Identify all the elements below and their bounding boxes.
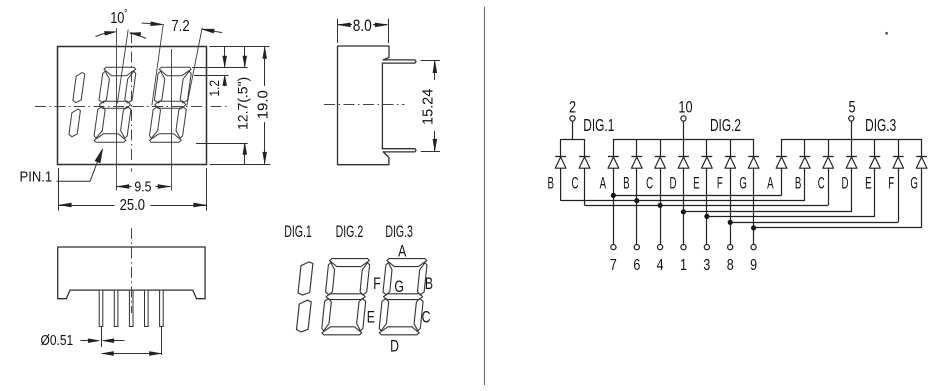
- 19.0 dimension: [264, 46, 266, 86]
- side view centerline: [324, 104, 405, 106]
- svg-text:C: C: [646, 172, 653, 192]
- svg-text:A: A: [600, 172, 607, 192]
- pin 8 terminal: [728, 245, 733, 250]
- svg-text:F: F: [373, 275, 380, 293]
- segment A: [330, 259, 370, 267]
- digit3 center construction line: [171, 49, 173, 191]
- pin spacing dimension: [161, 327, 163, 356]
- wire diode F DIG.2 down to pin: [730, 168, 732, 244]
- svg-text:8.0: 8.0: [353, 17, 372, 35]
- svg-text:PIN.1: PIN.1: [20, 169, 53, 185]
- LED E DIG.3: [870, 156, 881, 158]
- bottom view centerline: [131, 228, 133, 313]
- wire DIG.1 C to rail C: [584, 168, 586, 205]
- wire diode F DIG.3 to rail F: [898, 168, 900, 222]
- pin 4 terminal: [658, 245, 663, 250]
- 8.0 dimension: [337, 19, 339, 43]
- junction dot F: [728, 220, 733, 225]
- wire bus to diode B DIG.1: [560, 139, 562, 156]
- svg-text:2: 2: [569, 98, 576, 117]
- wire diode D DIG.3 to rail D: [851, 168, 853, 212]
- svg-text:B: B: [425, 275, 433, 293]
- svg-text:9.5: 9.5: [134, 179, 151, 195]
- svg-text:G: G: [910, 172, 918, 192]
- 7.2 right extension line (slanted): [187, 28, 202, 106]
- junction dot C: [658, 203, 663, 208]
- diagram DIG.1 segment C: [297, 300, 312, 332]
- wire diode G DIG.3 to rail G: [921, 168, 923, 228]
- svg-text:C: C: [818, 172, 825, 192]
- wire diode A DIG.2 down to pin: [613, 168, 615, 244]
- rail E wire: [707, 216, 875, 218]
- svg-text:15.24: 15.24: [420, 89, 436, 125]
- wire diode B DIG.2 down to pin: [636, 168, 638, 244]
- front view package outline: [58, 47, 207, 165]
- wire diode C DIG.2 down to pin: [660, 168, 662, 244]
- wire pin10 to DIG.2 bus: [683, 121, 685, 139]
- svg-text:8: 8: [727, 257, 734, 275]
- LED A DIG.2: [608, 156, 619, 158]
- 25.0 dimension right extension: [206, 168, 208, 211]
- front DIG.1 segment C: [69, 109, 81, 137]
- bottom view pin 4: [145, 290, 149, 326]
- svg-text:G: G: [394, 278, 404, 296]
- svg-text:F: F: [717, 172, 723, 192]
- wire diode D DIG.2 down to pin: [683, 168, 685, 244]
- svg-text:10: 10: [110, 10, 124, 28]
- svg-text:1: 1: [680, 257, 687, 275]
- segment E: [150, 107, 161, 139]
- svg-text:DIG.2: DIG.2: [710, 116, 741, 136]
- 1.2 dimension: [224, 46, 226, 66]
- digit bottom extension line: [196, 143, 248, 145]
- svg-text:1.2: 1.2: [206, 80, 222, 97]
- digit2 center construction line: [116, 28, 118, 191]
- segment C: [176, 107, 186, 139]
- segment C: [121, 107, 131, 139]
- bottom view pin 2: [114, 290, 118, 326]
- wire bus to diode F DIG.2: [730, 139, 732, 156]
- segment D: [94, 134, 126, 143]
- PIN.1 leader line: [57, 153, 102, 182]
- svg-text:C: C: [422, 309, 431, 327]
- segment B: [180, 71, 191, 103]
- svg-text:5: 5: [848, 98, 855, 117]
- wire bus to diode B DIG.3: [804, 139, 806, 156]
- front view horizontal centerline: [35, 106, 228, 108]
- wire diode B DIG.3 to rail B: [804, 168, 806, 201]
- wire diode E DIG.3 to rail E: [874, 168, 876, 216]
- segment A: [387, 259, 427, 267]
- segment C: [414, 299, 423, 331]
- svg-text:D: D: [669, 172, 676, 192]
- LED F DIG.2: [725, 156, 736, 158]
- svg-text:10: 10: [678, 98, 692, 117]
- segment C: [357, 299, 366, 331]
- svg-text:E: E: [865, 172, 871, 192]
- svg-text:25.0: 25.0: [120, 197, 145, 214]
- wire diode G DIG.2 down to pin: [753, 168, 755, 244]
- wire DIG.1 B to rail B: [560, 168, 562, 201]
- wire bus to diode G DIG.2: [753, 139, 755, 156]
- digit top extension line: [192, 67, 248, 69]
- junction dot D: [681, 209, 686, 214]
- svg-text:Ø0.51: Ø0.51: [41, 332, 74, 349]
- DIG.1 anode bus: [561, 139, 585, 141]
- svg-text:7.2: 7.2: [171, 18, 189, 35]
- segment B: [418, 263, 428, 295]
- segment F: [383, 263, 392, 295]
- segment D: [379, 327, 419, 335]
- svg-text:A: A: [398, 243, 406, 261]
- segment E: [94, 107, 105, 139]
- segment F: [154, 71, 164, 103]
- rail C wire: [585, 205, 829, 207]
- LED C DIG.1: [579, 156, 590, 158]
- bottom view pin 1: [99, 290, 103, 326]
- segment B: [360, 263, 370, 295]
- rail D wire: [684, 211, 852, 213]
- segment top extension line (1.2): [194, 75, 229, 77]
- segment G: [155, 101, 186, 108]
- svg-text:DIG.2: DIG.2: [336, 222, 364, 241]
- 15.24 dimension: [421, 60, 440, 62]
- 9.5 dimension: [116, 186, 131, 188]
- segment A: [104, 67, 136, 76]
- package top extension line: [210, 46, 270, 48]
- segment A: [159, 67, 191, 76]
- svg-text:D: D: [390, 338, 399, 356]
- pin 9 terminal: [751, 245, 756, 250]
- wire diode E DIG.2 down to pin: [706, 168, 708, 244]
- bottom view pin 5: [160, 290, 164, 326]
- svg-text:DIG.3: DIG.3: [865, 116, 896, 136]
- svg-text:C: C: [571, 172, 578, 192]
- LED G DIG.2: [748, 156, 759, 158]
- LED C DIG.3: [823, 156, 834, 158]
- segment B: [125, 71, 136, 103]
- package bottom extension line: [210, 164, 271, 166]
- LED A DIG.3: [776, 156, 787, 158]
- wire bus to diode A DIG.3: [781, 139, 783, 156]
- 7.2 left extension line (slanted): [152, 24, 163, 105]
- 12.7(.5in) dimension: [244, 46, 246, 66]
- front view vertical centerline: [131, 32, 133, 172]
- svg-text:D: D: [841, 172, 848, 192]
- junction dot E: [704, 214, 709, 219]
- wire bus to diode C DIG.1: [584, 139, 586, 156]
- segment G: [384, 294, 423, 300]
- 25.0 dimension left extension: [58, 168, 60, 211]
- pin 7 terminal: [611, 245, 616, 250]
- segment G: [99, 101, 130, 108]
- 25.0 dimension line and arrows: [59, 205, 115, 207]
- svg-text:12.7(.5"): 12.7(.5"): [235, 77, 251, 130]
- DIG.3 anode bus: [782, 139, 922, 141]
- svg-text:DIG.1: DIG.1: [583, 116, 614, 136]
- wire bus to diode E DIG.2: [706, 139, 708, 156]
- segment D: [150, 134, 182, 143]
- DIG.2 anode bus: [613, 139, 753, 141]
- pin 6 terminal: [634, 245, 639, 250]
- svg-text:3: 3: [703, 257, 710, 275]
- LED D DIG.2: [678, 156, 689, 158]
- wire bus to diode G DIG.3: [921, 139, 923, 156]
- svg-text:G: G: [739, 172, 747, 192]
- LED B DIG.3: [800, 156, 811, 158]
- rail G wire: [754, 227, 922, 229]
- diameter 0.51 leader arrows: [101, 327, 103, 348]
- svg-text:B: B: [547, 172, 553, 192]
- wire bus to diode E DIG.3: [874, 139, 876, 156]
- bottom view body outline: [58, 247, 205, 299]
- segment F: [326, 263, 335, 295]
- svg-text:A: A: [767, 172, 774, 192]
- svg-text:B: B: [623, 172, 629, 192]
- svg-text:E: E: [693, 172, 699, 192]
- wire bus to diode A DIG.2: [613, 139, 615, 156]
- wire diode C DIG.3 to rail C: [828, 168, 830, 205]
- segment F: [99, 71, 109, 103]
- diagram DIG.1 segment B: [298, 262, 313, 295]
- LED F DIG.3: [893, 156, 904, 158]
- pin 5 terminal: [849, 116, 854, 121]
- svg-text:E: E: [367, 309, 375, 327]
- pin 3 terminal: [704, 245, 709, 250]
- wire bus to diode C DIG.3: [828, 139, 830, 156]
- svg-text:°: °: [124, 8, 128, 20]
- rail A wire: [613, 195, 781, 197]
- pin 2 terminal: [570, 116, 575, 121]
- svg-text:DIG.3: DIG.3: [385, 222, 413, 241]
- pin 1 terminal: [681, 245, 686, 250]
- rail B wire: [561, 200, 805, 202]
- junction dot B: [634, 198, 639, 203]
- bottom view pin 3: [129, 290, 133, 326]
- wire bus to diode B DIG.2: [636, 139, 638, 156]
- svg-text:B: B: [795, 172, 801, 192]
- svg-text:F: F: [888, 172, 894, 192]
- LED D DIG.3: [846, 156, 857, 158]
- segment E: [379, 299, 389, 331]
- wire bus to diode D DIG.3: [851, 139, 853, 156]
- 10deg slanted axis line: [117, 30, 128, 104]
- svg-text:4: 4: [657, 257, 664, 275]
- LED E DIG.2: [702, 156, 713, 158]
- rail F wire: [730, 222, 898, 224]
- LED B DIG.1: [555, 156, 566, 158]
- stray dot: [885, 32, 888, 35]
- segment D: [322, 327, 362, 335]
- segment G: [326, 294, 365, 300]
- LED G DIG.3: [916, 156, 927, 158]
- svg-text:7: 7: [610, 257, 617, 275]
- wire bus to diode D DIG.2: [683, 139, 685, 156]
- segment E: [322, 299, 332, 331]
- svg-text:DIG.1: DIG.1: [284, 222, 312, 241]
- wire bus to diode F DIG.3: [898, 139, 900, 156]
- side view body outline: [338, 46, 416, 165]
- svg-text:6: 6: [633, 257, 640, 275]
- wire bus to diode C DIG.2: [660, 139, 662, 156]
- front DIG.1 segment B: [73, 73, 85, 103]
- junction dot A: [611, 193, 616, 198]
- svg-text:19.0: 19.0: [254, 90, 271, 119]
- wire pin2 to DIG.1 bus: [572, 121, 574, 139]
- LED B DIG.2: [631, 156, 642, 158]
- wire pin5 to DIG.3 bus: [851, 121, 853, 139]
- wire diode A DIG.3 to rail A: [781, 168, 783, 195]
- pin 10 terminal: [681, 116, 686, 121]
- LED C DIG.2: [655, 156, 666, 158]
- junction dot G: [751, 225, 756, 230]
- svg-text:9: 9: [750, 257, 757, 275]
- separator line: [484, 7, 486, 385]
